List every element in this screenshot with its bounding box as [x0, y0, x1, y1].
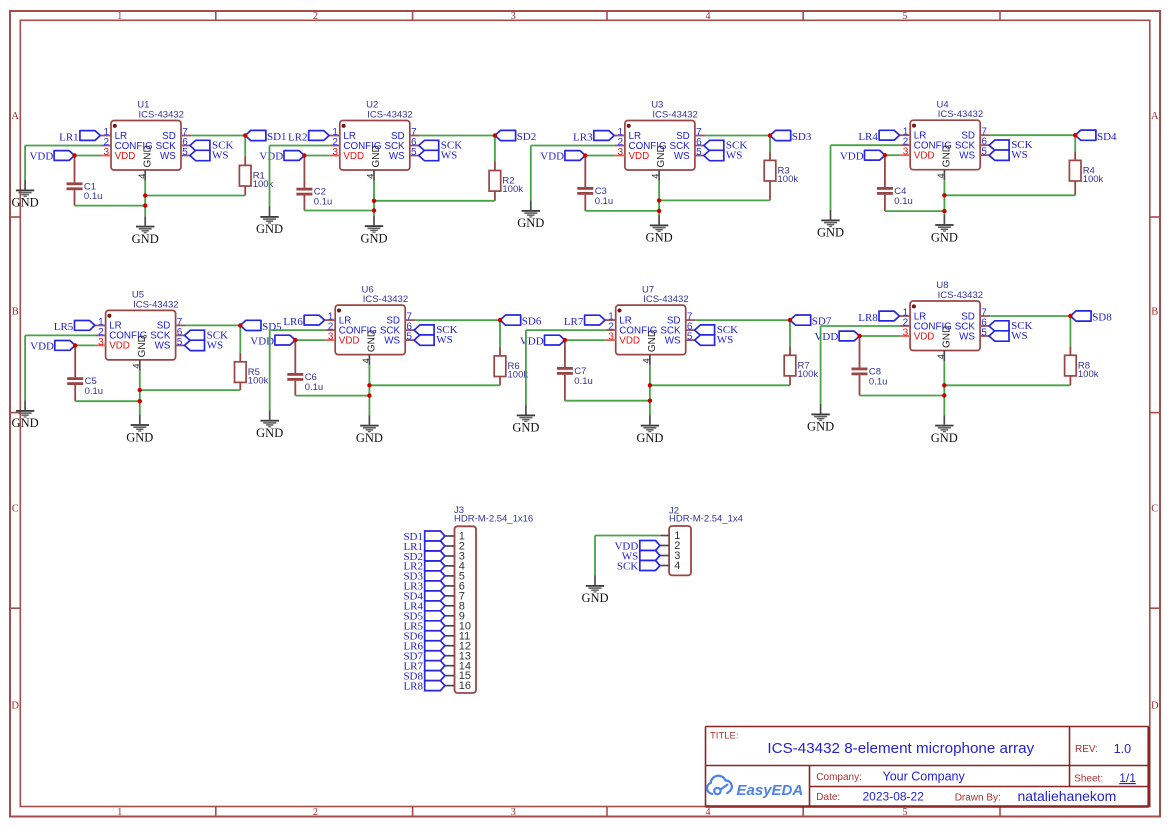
svg-text:WS: WS [959, 151, 975, 162]
ground [646, 215, 673, 245]
J2 pin 3 [660, 550, 680, 562]
svg-text:SD8: SD8 [1092, 312, 1112, 324]
junction [367, 393, 371, 397]
net flag LR8 [858, 311, 899, 324]
svg-text:WS: WS [717, 334, 734, 346]
wire VDD flag to pin 3 of U3 [585, 155, 615, 157]
ground [512, 405, 539, 435]
wire CONFIG pin 2 of U4 to ground [831, 145, 901, 210]
svg-text:VDD: VDD [914, 151, 935, 162]
net flag SD5 (J3 pin 9) [403, 611, 444, 623]
junction [498, 318, 502, 322]
svg-text:4: 4 [651, 174, 662, 179]
svg-text:4: 4 [706, 11, 711, 22]
svg-text:4: 4 [361, 358, 372, 363]
svg-text:3: 3 [511, 11, 516, 22]
power flag VDD (U8) [814, 331, 900, 343]
svg-text:WS: WS [436, 334, 453, 346]
wire C1 to ground net [75, 205, 146, 207]
svg-text:VDD: VDD [629, 151, 650, 162]
svg-text:VDD: VDD [520, 335, 544, 347]
capacitor C3 0.1u [577, 156, 613, 211]
J3 pin 15 [445, 670, 471, 682]
wire CONFIG pin 2 of U8 to ground [821, 326, 901, 404]
net flag SD5 [240, 320, 282, 333]
svg-text:LR6: LR6 [283, 316, 303, 328]
wire CONFIG pin 2 of U7 to ground [526, 330, 606, 405]
junction [72, 153, 76, 157]
svg-text:HDR-M-2.54_1x4: HDR-M-2.54_1x4 [669, 514, 743, 525]
J3 pin 11 [445, 630, 470, 642]
net port SCK [704, 140, 748, 152]
svg-text:LR4: LR4 [858, 131, 878, 143]
wire CONFIG pin 2 of U1 to ground [25, 146, 101, 181]
J3 pin 9 [445, 610, 465, 622]
svg-text:GND: GND [356, 431, 383, 445]
svg-text:ICS-43432: ICS-43432 [938, 109, 983, 120]
junction [138, 399, 142, 403]
svg-text:GND: GND [931, 431, 958, 445]
junction [493, 133, 497, 137]
power flag VDD (U4) [840, 150, 900, 162]
wire VDD flag to pin 3 of U5 [75, 344, 95, 346]
svg-text:GND: GND [367, 330, 378, 352]
svg-text:2: 2 [313, 807, 318, 818]
svg-text:VDD: VDD [343, 151, 364, 162]
title block [706, 727, 1149, 807]
power flag VDD (U1) [29, 151, 101, 163]
svg-text:3: 3 [608, 332, 614, 343]
frame tick left [10, 216, 20, 218]
ground [256, 207, 283, 237]
junction [138, 388, 142, 392]
wire SD junction down to R8 [1069, 316, 1071, 346]
svg-text:GND: GND [512, 421, 539, 435]
J2 pin 1 [660, 530, 680, 542]
J3 pin 8 [445, 600, 465, 612]
svg-text:GND: GND [360, 231, 387, 245]
net flag SD1 (J3 pin 1) [403, 531, 444, 543]
junction [942, 383, 946, 387]
ground [817, 210, 844, 240]
IC U4 ICS-43432 [900, 99, 991, 180]
svg-text:3: 3 [328, 332, 334, 343]
wire J2 pin 1 to ground [595, 536, 660, 576]
J3 pin 10 [445, 620, 471, 632]
svg-text:5: 5 [696, 147, 702, 158]
svg-text:VDD: VDD [259, 151, 283, 163]
svg-text:5: 5 [687, 332, 693, 343]
svg-text:GND: GND [517, 216, 544, 230]
wire C6 to ground net [295, 395, 369, 397]
junction [768, 133, 772, 137]
svg-text:C: C [1151, 504, 1158, 515]
svg-text:ICS-43432: ICS-43432 [938, 290, 983, 301]
svg-text:SD1: SD1 [267, 131, 287, 143]
svg-text:16: 16 [459, 680, 471, 692]
svg-text:TITLE:: TITLE: [710, 730, 739, 741]
svg-text:WS: WS [384, 335, 400, 346]
wire SD junction down to R4 [1074, 135, 1076, 151]
svg-text:3: 3 [903, 147, 909, 158]
wire VDD flag to pin 3 of U4 [885, 154, 900, 156]
junction [367, 383, 371, 387]
svg-text:WS: WS [726, 150, 743, 162]
net port SCK [989, 139, 1033, 151]
svg-text:SCK: SCK [617, 560, 638, 572]
net port SCK [695, 324, 739, 336]
IC U2 ICS-43432 [329, 100, 420, 181]
net flag WS (J2 pin 3) [622, 550, 660, 562]
frame tick bottom [802, 807, 804, 817]
svg-text:LR5: LR5 [54, 321, 74, 333]
svg-text:GND: GND [137, 335, 148, 357]
frame tick top [215, 11, 217, 20]
capacitor C6 0.1u [287, 340, 323, 396]
svg-text:ICS-43432: ICS-43432 [139, 110, 184, 121]
wire SD junction down to R7 [789, 320, 791, 346]
wire CONFIG pin 2 of U5 to ground [25, 335, 96, 400]
svg-text:0.1u: 0.1u [894, 196, 913, 207]
svg-text:0.1u: 0.1u [305, 382, 324, 393]
svg-text:HDR-M-2.54_1x16: HDR-M-2.54_1x16 [454, 514, 533, 525]
frame tick top [802, 11, 804, 20]
J3 pin 2 [445, 541, 465, 553]
ground [360, 216, 387, 246]
svg-text:WS: WS [959, 331, 975, 342]
net flag SCK (J2 pin 4) [617, 560, 660, 572]
svg-text:ICS-43432: ICS-43432 [363, 294, 408, 305]
svg-text:VDD: VDD [30, 341, 54, 353]
frame tick left [10, 412, 20, 414]
net port SCK [185, 329, 229, 341]
IC U8 ICS-43432 [899, 280, 990, 361]
net flag LR3 [573, 131, 614, 144]
svg-text:A: A [1151, 111, 1159, 122]
net port WS [704, 150, 743, 162]
net port WS [989, 149, 1028, 161]
svg-text:3: 3 [104, 147, 110, 158]
svg-text:VDD: VDD [619, 335, 640, 346]
wire C7 to ground net [565, 400, 650, 402]
svg-text:5: 5 [182, 147, 188, 158]
net flag SD7 (J3 pin 13) [403, 651, 444, 663]
svg-text:1/1: 1/1 [1119, 771, 1136, 785]
ground [517, 201, 544, 231]
net flag LR6 [283, 315, 324, 328]
wire VDD flag to pin 3 of U1 [75, 155, 102, 157]
wire pin 4 of U7 to ground [649, 365, 651, 415]
svg-text:3: 3 [903, 328, 909, 339]
svg-text:GND: GND [12, 196, 39, 210]
net flag LR8 (J3 pin 16) [403, 680, 444, 692]
junction [942, 393, 946, 397]
net flag LR2 (J3 pin 4) [403, 561, 444, 573]
wire R5 bottom to ground net [140, 389, 241, 391]
net flag LR4 [858, 130, 899, 143]
svg-text:Date:: Date: [816, 792, 840, 803]
wire pin 4 of U8 to ground [943, 361, 945, 415]
svg-text:5: 5 [903, 807, 908, 818]
capacitor C5 0.1u [67, 345, 103, 401]
wire pin 4 of U2 to ground [373, 181, 375, 216]
svg-text:4: 4 [642, 358, 653, 363]
frame tick right [1150, 216, 1160, 218]
wire pin 4 of U5 to ground [139, 370, 141, 414]
svg-text:Sheet:: Sheet: [1074, 774, 1103, 785]
svg-text:SD2: SD2 [517, 131, 537, 143]
svg-text:GND: GND [581, 591, 608, 605]
power flag VDD (U5) [30, 341, 95, 353]
svg-text:VDD: VDD [339, 335, 360, 346]
net port SCK [989, 320, 1033, 332]
svg-text:Drawn By:: Drawn By: [955, 792, 1001, 803]
svg-text:VDD: VDD [914, 331, 935, 342]
frame tick top [999, 11, 1001, 20]
wire SD junction down to R1 [244, 136, 246, 157]
junction [648, 399, 652, 403]
svg-text:nataliehanekom: nataliehanekom [1018, 788, 1117, 804]
power flag VDD (U2) [259, 151, 329, 163]
svg-text:WS: WS [207, 339, 224, 351]
frame tick right [1150, 412, 1160, 414]
junction [372, 208, 376, 212]
J3 pin 4 [445, 561, 465, 573]
J3 pin 1 [445, 531, 465, 543]
frame tick top [412, 11, 414, 20]
wire SD junction down to R3 [769, 136, 771, 152]
wire SD junction down to R5 [239, 325, 241, 352]
junction [73, 343, 77, 347]
svg-text:1.0: 1.0 [1114, 742, 1131, 756]
net port WS [989, 330, 1028, 342]
junction [583, 153, 587, 157]
net flag LR4 (J3 pin 8) [403, 601, 444, 613]
ground [931, 215, 958, 245]
resistor R7 100k [784, 346, 818, 385]
svg-text:GND: GND [931, 230, 958, 244]
frame tick top [606, 11, 608, 20]
svg-text:1: 1 [117, 807, 122, 818]
junction [657, 198, 661, 202]
wire VDD flag to pin 3 of U8 [860, 335, 901, 337]
svg-text:LR1: LR1 [59, 131, 79, 143]
ground [356, 415, 383, 445]
wire CONFIG pin 2 of U6 to ground [270, 330, 326, 410]
wire R2 bottom to ground net [374, 200, 495, 202]
svg-text:4: 4 [936, 173, 947, 178]
J3 pin 16 [445, 680, 471, 692]
wire VDD flag to pin 3 of U6 [295, 339, 325, 341]
svg-text:GND: GND [142, 145, 153, 167]
svg-text:4: 4 [674, 560, 680, 572]
svg-text:WS: WS [1011, 149, 1027, 161]
capacitor C2 0.1u [296, 156, 332, 211]
svg-text:WS: WS [441, 150, 458, 162]
svg-text:ICS-43432 8-element microphone: ICS-43432 8-element microphone array [767, 740, 1034, 757]
svg-text:SD6: SD6 [522, 316, 542, 328]
ground [581, 576, 608, 606]
svg-text:3: 3 [98, 337, 104, 348]
svg-text:5: 5 [981, 147, 987, 158]
ground [126, 415, 153, 445]
wire pin 4 of U4 to ground [943, 180, 945, 214]
junction [883, 153, 887, 157]
resistor R1 100k [239, 156, 273, 195]
wire R1 bottom to ground net [145, 195, 245, 197]
svg-text:GND: GND [126, 430, 153, 444]
svg-text:WS: WS [155, 341, 171, 352]
svg-text:5: 5 [981, 328, 987, 339]
junction [1073, 133, 1077, 137]
svg-text:SD4: SD4 [1097, 131, 1117, 143]
net flag SD2 [495, 130, 536, 143]
svg-text:SD5: SD5 [262, 321, 282, 333]
net flag LR3 (J3 pin 6) [403, 581, 444, 593]
svg-text:0.1u: 0.1u [85, 386, 104, 397]
J2 pin 4 [660, 560, 680, 572]
junction [942, 209, 946, 213]
net port WS [190, 150, 229, 162]
net flag LR2 [288, 131, 329, 144]
net flag LR1 (J3 pin 2) [403, 541, 444, 553]
svg-text:5: 5 [177, 337, 183, 348]
J3 pin 6 [445, 581, 465, 593]
wire VDD flag to pin 3 of U7 [565, 339, 606, 341]
junction [648, 383, 652, 387]
svg-text:4: 4 [131, 364, 142, 369]
J2 pin 2 [660, 540, 680, 552]
wire pin 4 of U1 to ground [144, 181, 146, 217]
svg-text:VDD: VDD [115, 151, 136, 162]
svg-text:VDD: VDD [109, 341, 130, 352]
IC U5 ICS-43432 [95, 290, 186, 371]
capacitor C7 0.1u [557, 340, 593, 401]
wire R8 bottom to ground net [944, 384, 1070, 386]
svg-text:4: 4 [706, 807, 711, 818]
svg-text:B: B [1151, 307, 1158, 318]
junction [238, 323, 242, 327]
junction [372, 199, 376, 203]
wire SD pin 7 of U7 to R7 [696, 319, 790, 321]
resistor R3 100k [764, 151, 798, 200]
wire SD pin 7 of U3 to R3 [705, 135, 770, 137]
net port SCK [414, 324, 458, 336]
svg-text:GND: GND [647, 330, 658, 352]
wire VDD flag to pin 3 of U2 [304, 155, 329, 157]
ground [12, 401, 39, 431]
svg-text:LR2: LR2 [288, 131, 308, 143]
svg-text:B: B [12, 307, 19, 318]
svg-text:100k: 100k [1083, 174, 1104, 185]
svg-text:D: D [11, 701, 19, 712]
svg-text:WS: WS [160, 151, 176, 162]
net flag SD4 [1075, 130, 1117, 143]
svg-text:D: D [1151, 701, 1159, 712]
svg-text:LR8: LR8 [403, 680, 423, 692]
wire SD pin 7 of U6 to R6 [415, 319, 500, 321]
svg-text:VDD: VDD [840, 150, 864, 162]
ground [807, 404, 834, 434]
ground [636, 415, 663, 445]
svg-text:Your Company: Your Company [883, 770, 966, 784]
frame tick right [1150, 607, 1160, 609]
net flag SD6 [500, 315, 542, 328]
junction [143, 203, 147, 207]
J3 pin 12 [445, 640, 471, 652]
junction [243, 133, 247, 137]
net port WS [695, 334, 734, 346]
svg-text:GND: GND [256, 426, 283, 440]
net port WS [185, 339, 224, 351]
IC U6 ICS-43432 [325, 284, 416, 365]
net port SCK [419, 140, 463, 152]
net flag LR7 [564, 315, 605, 328]
title block texts [710, 730, 1136, 804]
junction [293, 338, 297, 342]
svg-text:GND: GND [941, 326, 952, 348]
net flag LR5 [54, 321, 95, 334]
svg-text:C: C [12, 504, 19, 515]
net flag LR7 (J3 pin 14) [403, 661, 444, 673]
svg-text:4: 4 [137, 174, 148, 179]
power flag VDD (U7) [520, 335, 606, 347]
svg-text:GND: GND [371, 145, 382, 167]
net flag LR6 (J3 pin 12) [403, 641, 444, 653]
wire SD pin 7 of U2 to R2 [420, 135, 495, 137]
resistor R5 100k [235, 353, 269, 390]
net port SCK [190, 140, 234, 152]
svg-text:WS: WS [1011, 330, 1028, 342]
resistor R6 100k [494, 347, 528, 385]
svg-text:100k: 100k [778, 174, 799, 185]
svg-text:5: 5 [411, 147, 417, 158]
svg-text:0.1u: 0.1u [574, 376, 593, 387]
ground [132, 216, 159, 246]
svg-text:5: 5 [903, 11, 908, 22]
frame tick bottom [999, 807, 1001, 817]
junction [857, 334, 861, 338]
J3 pin 13 [445, 650, 471, 662]
wire SD pin 7 of U5 to R5 [186, 324, 241, 326]
svg-text:GND: GND [132, 232, 159, 246]
wire CONFIG pin 2 of U3 to ground [531, 146, 615, 201]
svg-text:0.1u: 0.1u [595, 196, 614, 207]
IC U3 ICS-43432 [614, 100, 705, 181]
net flag LR5 (J3 pin 10) [403, 621, 444, 633]
power flag VDD (U6) [250, 335, 325, 347]
wire pin 4 of U3 to ground [658, 181, 660, 216]
ground [256, 410, 283, 440]
wire R3 bottom to ground net [659, 199, 770, 201]
svg-text:GND: GND [646, 231, 673, 245]
capacitor C1 0.1u [67, 156, 103, 206]
svg-text:2: 2 [313, 11, 318, 22]
svg-text:GND: GND [256, 222, 283, 236]
wire SD junction down to R6 [499, 320, 501, 347]
wire C2 to ground net [304, 210, 374, 212]
svg-text:GND: GND [12, 416, 39, 430]
net flag SD3 (J3 pin 5) [403, 571, 444, 583]
resistor R4 100k [1069, 151, 1103, 195]
svg-text:GND: GND [942, 145, 953, 167]
svg-text:1: 1 [117, 11, 122, 22]
connector J3 HDR-M-2.54_1x16 [454, 505, 533, 693]
svg-text:ICS-43432: ICS-43432 [643, 294, 688, 305]
ground [12, 180, 39, 210]
svg-text:A: A [11, 111, 19, 122]
net flag SD1 [245, 130, 286, 143]
